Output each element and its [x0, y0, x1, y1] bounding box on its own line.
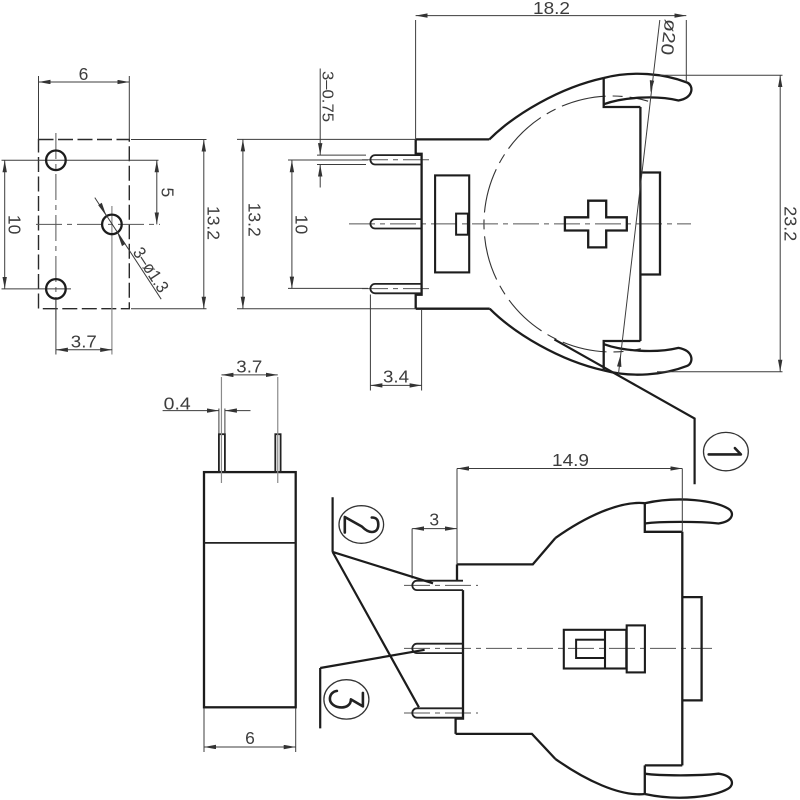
- callout 1 leader line: [554, 339, 694, 484]
- front view: inner small rectangle: [456, 214, 468, 235]
- svg-text:13.2: 13.2: [245, 203, 265, 237]
- svg-text:3: 3: [429, 510, 439, 530]
- front view: battery cell outline (dashed arc D20): [484, 96, 648, 352]
- front view: top pin: [370, 155, 421, 164]
- bottom view: holder body outline (hidden/dashed rectangle): [39, 140, 130, 309]
- dimension 23.2 (total height): [657, 75, 800, 372]
- dimension 3.4 (pin length, front): [370, 295, 421, 391]
- back view: center contact right block: [627, 625, 645, 672]
- callout 3 balloon circle: [324, 680, 369, 719]
- dimension 13.2 (front view height): [237, 139, 416, 308]
- back view: bottom pin: [412, 708, 463, 717]
- svg-text:6: 6: [79, 64, 89, 84]
- back view: clamp outer arc bottom: [555, 759, 645, 794]
- back view: body bottom edge and diagonal: [456, 734, 556, 759]
- bottom view: pad hole bottom-left: [46, 279, 66, 299]
- back view: body left edge with steps: [456, 564, 463, 734]
- front view: bottom arm left edge and step: [604, 341, 641, 370]
- bottom view: vertical centerline through left mounting holes: [55, 133, 57, 320]
- dimension 5 (center hole offset): [157, 160, 178, 224]
- front view: right wall: [639, 107, 641, 341]
- bottom view: pad hole center: [102, 215, 122, 235]
- svg-text:14.9: 14.9: [552, 450, 589, 470]
- bottom view: vertical centerline through center hole (extension to 3.7 dim): [111, 206, 113, 355]
- svg-text:3–0.75: 3–0.75: [319, 71, 336, 122]
- svg-text:3.4: 3.4: [383, 366, 409, 386]
- front view: clamp outer arc top: [489, 78, 603, 139]
- front view: bottom pin centerline: [362, 288, 431, 290]
- front view: bottom pin: [370, 284, 421, 293]
- side view: right pin centerline: [277, 377, 279, 483]
- svg-text:3.7: 3.7: [71, 332, 97, 352]
- side view: left pin: [219, 434, 225, 472]
- svg-text:ø20: ø20: [657, 18, 681, 56]
- callout 2 balloon circle: [339, 506, 384, 544]
- front view: body bottom edge: [416, 308, 490, 310]
- svg-text:10: 10: [5, 215, 25, 235]
- svg-text:3.7: 3.7: [236, 357, 262, 377]
- callout 1 digit: [709, 448, 741, 454]
- svg-text:18.2: 18.2: [533, 0, 570, 18]
- front view: bottom arm (hook): [604, 344, 692, 374]
- dimension 10 (hole spacing, left): [5, 160, 25, 289]
- back view: bottom arm left edge and step: [645, 765, 683, 794]
- side view: left pin centerline: [220, 377, 222, 483]
- dimension 13.2 (bottom view height): [131, 140, 224, 309]
- front view: top arm (hook): [604, 74, 692, 104]
- svg-text:10: 10: [292, 215, 312, 235]
- front view: clamp outer arc bottom: [490, 309, 604, 371]
- dimension 3.7 (center hole x offset): [56, 299, 112, 355]
- front view: body left edge with pin steps: [416, 139, 422, 308]
- dimension 3-0.75 (pin thickness): [317, 69, 366, 188]
- dimension 10 (pin pitch, front view): [292, 160, 312, 288]
- callout 3 digit: [330, 691, 363, 708]
- back view: top pin: [412, 581, 463, 590]
- back view: middle pin: [412, 644, 463, 653]
- front view: top pin centerline: [362, 159, 431, 161]
- dimension 0.4 (pin width): [163, 393, 251, 434]
- back view: top arm left edge and step: [645, 503, 683, 532]
- front view: main horizontal centerline: [349, 223, 691, 225]
- back view: center contact outer rectangle: [564, 630, 627, 669]
- dimension 3.7 (pin pitch, side view): [221, 357, 277, 377]
- side view: horizontal parting line: [204, 542, 296, 544]
- dimension 18.2 (clamp width): [416, 0, 687, 139]
- svg-text:6: 6: [245, 728, 255, 748]
- dimension 6 (top width): [39, 64, 130, 140]
- back view: body top edge and diagonal: [457, 538, 555, 564]
- bottom view: extension line through top hole (for dims 10 and 5): [2, 159, 159, 161]
- bottom view: horizontal centerline through center hole: [36, 223, 160, 225]
- back view: clamp outer arc top: [555, 503, 645, 538]
- back view: center contact divider: [604, 630, 606, 669]
- back view: right wall bump rectangle: [682, 597, 701, 700]
- svg-text:0.4: 0.4: [164, 393, 191, 413]
- back view: bottom arm (hook): [645, 774, 732, 798]
- dimension 3 (pin length, back view): [412, 510, 457, 579]
- callout 2 leader lines: [333, 497, 433, 707]
- front view: top arm left edge and step: [604, 78, 641, 107]
- front view: center cross (+) cutout: [565, 201, 627, 248]
- front view: right wall bump rectangle: [640, 173, 660, 275]
- back view: top arm (hook): [645, 499, 732, 523]
- callout 1 balloon circle: [704, 432, 749, 470]
- svg-text:5: 5: [158, 188, 178, 198]
- dimension 14.9 (back view width): [457, 450, 682, 564]
- svg-text:13.2: 13.2: [204, 206, 224, 240]
- side view: right pin: [275, 434, 280, 472]
- front view: middle pin: [370, 219, 421, 228]
- svg-text:23.2: 23.2: [781, 206, 800, 241]
- bottom view: pad hole top-left: [46, 151, 66, 171]
- back view: right wall: [681, 532, 683, 766]
- front view: body top edge: [416, 138, 490, 140]
- side view: body rectangle: [204, 472, 296, 707]
- bottom view: extension line through bottom hole (for dim 10): [2, 288, 72, 290]
- callout 2 digit: [345, 517, 379, 533]
- leader 3-D1.3 (hole diameter callout): [95, 198, 173, 300]
- dimension 6 (side view width): [204, 709, 296, 753]
- dimension D20 (battery diameter leader): [617, 18, 681, 374]
- front view: inner contact rectangle: [435, 175, 469, 272]
- back view: pin centerlines: [404, 585, 712, 713]
- callout 3 leader lines: [320, 650, 424, 729]
- back view: center contact inner rectangle: [576, 640, 605, 658]
